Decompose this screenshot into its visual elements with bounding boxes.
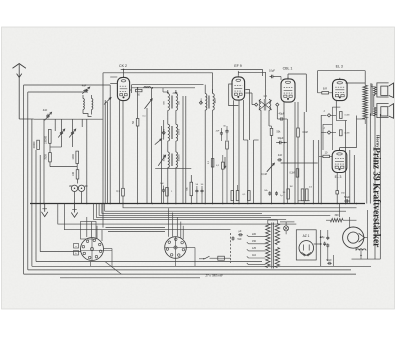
xfmr tap 110 — [249, 257, 266, 259]
wire EF9 plate corner — [245, 90, 249, 141]
wire subbus 5 — [94, 204, 287, 220]
potentiometer 0,1M — [267, 163, 275, 172]
trim diamond IFT2 — [199, 101, 202, 104]
svg-text:4nF: 4nF — [278, 154, 283, 157]
wire v313 — [312, 140, 314, 204]
wire IFT bracket — [163, 120, 165, 140]
svg-text:CBL 1: CBL 1 — [283, 67, 293, 71]
junction bus dot 6 — [137, 203, 139, 205]
rectifier box — [296, 230, 316, 260]
speaker 2 coil — [374, 107, 377, 116]
wire anode bus b — [132, 87, 196, 89]
wire 271 down2 — [271, 143, 273, 158]
wire CBL1 topline — [287, 74, 289, 79]
speaker 2 cone — [389, 104, 394, 119]
wire CK2 grid — [109, 85, 111, 100]
wire subbus 2 — [102, 204, 262, 214]
xfmr tap 220 — [249, 236, 266, 238]
resistor bus b — [166, 188, 169, 197]
wire tuner v50b — [49, 162, 51, 167]
wire subbus 0 — [123, 204, 357, 208]
wire subbus 4 — [96, 204, 271, 218]
power transformer primary — [266, 224, 270, 268]
junction bus dot 0 — [43, 203, 45, 205]
wire 271 down3 — [271, 158, 273, 204]
wire frame v5 — [39, 155, 41, 252]
wire frame v2 bottom — [28, 269, 351, 271]
resistor bus i — [306, 189, 309, 201]
svg-text:50µF: 50µF — [344, 196, 350, 199]
wire tuner v86 — [86, 119, 88, 203]
wire v380 down — [379, 114, 381, 259]
speaker 1 cone — [389, 83, 394, 98]
diamond interstage L — [255, 103, 258, 106]
electrolytic 30uF a — [71, 185, 77, 191]
wire v182 — [182, 96, 184, 204]
wire tuner v77 — [76, 164, 78, 170]
wire v298 — [297, 102, 299, 128]
wire frame v1 top — [24, 84, 111, 86]
wire IFT1a tops — [163, 91, 168, 93]
xfmr tap 150 — [249, 243, 266, 245]
wire field bottom — [360, 248, 362, 259]
antenna coil La — [83, 99, 84, 110]
junction bus dot 12 — [212, 203, 214, 205]
wire xfmr bottom — [364, 119, 366, 124]
resistor 50k interstage — [270, 128, 273, 135]
antenna coil Lb — [92, 99, 93, 110]
power transformer secondary b — [275, 248, 279, 268]
wire EF9 cath b — [238, 101, 240, 204]
wire xfmr top leads — [267, 220, 269, 224]
wire EF9 cath a — [233, 100, 235, 203]
svg-text:5nF: 5nF — [160, 183, 164, 185]
svg-text:125: 125 — [252, 247, 257, 250]
wire lamp leads — [285, 222, 287, 226]
wire CK2 pin mid — [122, 101, 124, 189]
wire top grid line — [121, 68, 263, 70]
wire subbus 1 — [105, 204, 346, 212]
resistor bus h — [301, 189, 304, 201]
electrolytic 30uF b — [78, 185, 84, 191]
wire EF9 plate link — [245, 92, 252, 94]
wire CBL1 k — [283, 102, 285, 204]
resistor bus c — [236, 191, 239, 201]
wire EF9 grid loop — [229, 84, 239, 106]
wire IFT1 link c — [167, 141, 169, 152]
junction bus dot 16 — [247, 203, 249, 205]
wire tuner v62 — [61, 119, 63, 131]
resistor 0,1M cbl — [297, 128, 300, 137]
junction bus dot 9 — [175, 203, 177, 205]
junction top cap CK2 — [123, 69, 125, 71]
wire osc line y168 — [155, 167, 191, 169]
ground symbol — [74, 204, 76, 213]
wire v339 down — [338, 204, 340, 218]
wire v318 — [318, 140, 320, 204]
switch arrow 225 — [224, 157, 226, 168]
svg-text:4nF: 4nF — [216, 131, 220, 133]
resistor 7500 — [49, 153, 52, 162]
resistor 0,1M cbl2 — [296, 169, 299, 177]
wire tuner v72b — [72, 136, 74, 148]
trimmer capacitor C-ant — [47, 114, 49, 116]
resistor BR — [322, 92, 329, 94]
svg-text:7500: 7500 — [45, 154, 48, 160]
svg-text:5nF: 5nF — [238, 238, 243, 241]
tube socket S2 — [165, 237, 187, 259]
output transformer core — [370, 84, 372, 116]
wire v258 down — [260, 110, 262, 203]
wire frame v4 — [35, 150, 37, 262]
resistor 30000 tuner — [37, 140, 40, 149]
svg-text:100000: 100000 — [45, 135, 48, 144]
wire v304 — [303, 112, 305, 204]
capacitor 50nF — [327, 262, 329, 264]
wire antenna to tuner — [19, 118, 33, 120]
wire v356 — [356, 116, 358, 148]
svg-text:0,1M: 0,1M — [303, 132, 308, 134]
svg-text:10000: 10000 — [179, 128, 181, 135]
junction bus1 — [137, 87, 139, 89]
wire res bracket — [298, 200, 310, 202]
tube socket S1 — [81, 238, 104, 261]
wire EL3t cath — [335, 100, 337, 110]
wire v345 — [345, 121, 347, 204]
wire mini rail EF9 — [222, 130, 227, 132]
capacitor mains filter — [238, 234, 240, 236]
wire frame v3 — [31, 119, 33, 266]
wire frame v4 bottom — [36, 261, 262, 263]
wire BR left — [318, 92, 322, 94]
wire frame v2 top — [28, 91, 88, 93]
wire EF9 corner down — [265, 72, 267, 99]
wire coupling line — [319, 155, 323, 157]
junction bus dot 11 — [204, 203, 206, 205]
field coil speaker — [343, 227, 364, 248]
resistor 222 — [222, 162, 225, 169]
wire splitter line — [281, 162, 318, 164]
junction bus dot 22 — [313, 203, 315, 205]
junction bus dot 25 — [345, 203, 347, 205]
speaker 1 frame — [377, 83, 389, 97]
svg-text:150: 150 — [252, 240, 257, 243]
wire EF9 screen — [243, 100, 245, 140]
wire AVC top line — [103, 72, 213, 74]
capacitor 10uF — [270, 76, 272, 78]
junction bus dot 7 — [152, 203, 154, 205]
fuse — [218, 256, 225, 260]
svg-text:27 v. 580 mW: 27 v. 580 mW — [204, 274, 222, 278]
wire v327 low — [327, 230, 329, 237]
xfmr tap low — [249, 264, 266, 266]
tuning capacitor arrow 1 — [104, 98, 111, 105]
wire subbus 3 — [99, 204, 330, 216]
wire antenna coil bottoms — [83, 114, 92, 117]
switch mains — [199, 258, 204, 260]
capacitor coupling J1 — [327, 114, 330, 117]
wire driver left — [323, 123, 332, 125]
wire S2 diag — [106, 262, 122, 274]
resistor 10 coupling — [323, 155, 330, 157]
svg-text:100: 100 — [72, 171, 75, 176]
wire tuner v72 — [72, 119, 74, 131]
svg-text:0,1M: 0,1M — [261, 173, 267, 176]
resistor 0,1 ift — [136, 119, 139, 127]
wire EF9 topcap line — [237, 71, 239, 75]
svg-text:1000: 1000 — [72, 154, 75, 160]
wire AZ1 HT riser — [320, 230, 322, 266]
wire v107 — [106, 102, 108, 204]
svg-text:300: 300 — [335, 214, 340, 217]
wire driver top — [332, 106, 340, 108]
wire grid EF9 link — [183, 95, 205, 97]
capacitor 50a — [196, 189, 198, 191]
svg-text:0,1M: 0,1M — [345, 133, 350, 135]
junction bus dot 5 — [122, 203, 124, 205]
wire inter-socket a — [106, 227, 166, 229]
diamond interstage R — [276, 103, 279, 106]
speaker 1 coil — [374, 87, 377, 96]
resistor 0,1 5W — [122, 188, 125, 196]
wire frame v5 bottom — [40, 251, 81, 253]
wire v367 low — [367, 210, 369, 259]
tube EL3 top — [333, 79, 348, 100]
svg-text:CK 2: CK 2 — [119, 64, 127, 68]
svg-text:30000: 30000 — [33, 141, 36, 148]
wire CK2 topcap — [123, 69, 125, 75]
capacitor bus e — [269, 191, 271, 193]
svg-text:AZ 1: AZ 1 — [303, 234, 310, 238]
wire v321 — [320, 115, 322, 203]
wire S2 stub — [175, 258, 177, 266]
wire v253 — [253, 140, 255, 204]
wire tuner v55 — [54, 119, 56, 131]
svg-text:50nF: 50nF — [326, 260, 332, 262]
tube CBL1 — [281, 79, 295, 102]
junction bus dot 8 — [167, 203, 169, 205]
capacitor az small — [324, 242, 326, 244]
svg-text:30µF: 30µF — [278, 136, 284, 140]
svg-text:Horny: Horny — [375, 135, 380, 148]
svg-text:10µF: 10µF — [269, 69, 275, 73]
wire subbus 6 — [58, 204, 296, 225]
svg-text:110: 110 — [252, 254, 256, 257]
svg-text:EL 3: EL 3 — [336, 65, 343, 69]
svg-text:B.R: B.R — [323, 88, 327, 91]
wire speakers link — [373, 95, 375, 107]
capacitor 4nF vol — [277, 159, 279, 161]
diamond IFT bracket — [162, 131, 165, 134]
IFT2 coil pair — [205, 94, 207, 111]
wire frame v2 — [27, 92, 29, 270]
wire tuner v82 — [81, 119, 83, 127]
wire v105 — [104, 100, 106, 204]
wire CK2 pin left — [119, 100, 121, 203]
svg-text:100000: 100000 — [179, 154, 181, 162]
speaker 2 frame — [377, 104, 389, 118]
junction bus dot 23 — [320, 203, 322, 205]
capacitor 50uF — [344, 200, 346, 202]
wire 271 down — [271, 126, 273, 128]
wire v155 — [146, 108, 148, 204]
resistor bus j — [231, 191, 234, 201]
wire v366 down — [366, 118, 368, 204]
capacitor 219 — [220, 131, 222, 133]
capacitor bus a — [163, 188, 165, 190]
resistor 50k agc — [190, 182, 193, 196]
wire IFT2 bottoms — [204, 110, 206, 204]
junction bus dot 20 — [294, 203, 296, 205]
resistor bus g — [287, 189, 290, 199]
tube EL3 bottom — [332, 151, 347, 173]
IFT1 coil pair C — [168, 152, 170, 168]
wire v375 down — [374, 112, 376, 259]
junction bus dot 15 — [238, 203, 240, 205]
socket S1 tags — [74, 244, 79, 249]
tube EF9 — [232, 77, 245, 100]
diode arrow 2 — [155, 139, 162, 145]
wire v110 — [109, 100, 111, 204]
wire bottom extra — [60, 277, 200, 279]
speaker 1 box — [381, 86, 388, 95]
wire v137 — [137, 88, 139, 119]
wire subbus 7 — [64, 204, 230, 230]
wire cap to CBL — [275, 76, 281, 78]
wire EL3t k2 — [335, 111, 337, 121]
coil RF choke — [144, 87, 151, 88]
resistor 1000 — [76, 151, 79, 163]
wire tuner v50a — [49, 143, 51, 152]
wire fuse leads — [210, 257, 218, 259]
svg-text:1M: 1M — [289, 186, 292, 188]
tuning capacitor arrow 2 — [145, 99, 153, 109]
junction bus dot 24 — [336, 203, 338, 205]
resistor 100000 — [49, 129, 52, 143]
wire socket2 feeds — [168, 208, 170, 237]
svg-text:1000: 1000 — [215, 98, 217, 104]
wire tuner top rail — [34, 118, 103, 120]
wire v349 — [349, 150, 351, 204]
resistor grid1 — [340, 112, 343, 119]
wire top right rail — [318, 70, 366, 72]
wire AZ1 out — [314, 243, 321, 245]
resistor EL3b k — [336, 191, 339, 194]
wire v354 — [353, 155, 355, 204]
resistor 50 screen — [136, 89, 143, 91]
wire socket1 feeds — [86, 217, 88, 237]
wire AVC vertical — [102, 73, 104, 228]
capacitor 5nF mains — [232, 236, 234, 238]
wire v161 — [161, 126, 163, 204]
capacitor 8uF b — [327, 243, 329, 245]
junction bus dot 2 — [86, 203, 88, 205]
power transformer core — [271, 223, 273, 269]
resistor on 212 line — [211, 159, 214, 167]
diode arrow AVC — [158, 155, 165, 166]
ground symbol 2 — [44, 204, 46, 212]
junction bus dot 3 — [102, 203, 104, 205]
junction bus dot 10 — [191, 203, 193, 205]
filter choke 3ohm — [330, 218, 343, 222]
wire tuner v61b — [61, 136, 63, 148]
power transformer secondary a — [275, 224, 279, 245]
dial lamp — [284, 226, 289, 231]
IFT1 coil pair B — [168, 124, 170, 141]
interstage transformer — [259, 100, 261, 111]
field coil winding — [356, 249, 366, 251]
wire EL3t plate — [346, 82, 366, 84]
wire v370 down — [369, 113, 371, 203]
wire frame v3 bottom — [32, 265, 371, 267]
junction bus dot 21 — [303, 203, 305, 205]
capacitor 40uF — [279, 118, 281, 120]
junction bus dot 26 — [356, 203, 358, 205]
wire CK2 plate riser — [130, 89, 132, 91]
speaker 2 box — [381, 107, 388, 116]
svg-text:0,1M: 0,1M — [289, 173, 294, 175]
trimmer capacitor T3 — [72, 131, 74, 133]
wire field top — [349, 217, 351, 228]
wire frame v1 — [23, 85, 25, 274]
wire v277 link — [276, 106, 278, 119]
wire v287 — [286, 119, 288, 204]
capacitor bus f — [276, 191, 278, 193]
wire IFT1 link a — [167, 110, 169, 124]
wire EL3b plate — [340, 147, 357, 149]
resistor EF9 k — [226, 141, 229, 149]
svg-text:4nF: 4nF — [43, 108, 48, 112]
socket shield box — [81, 222, 97, 240]
capacitor EF9 k — [226, 129, 228, 131]
wire IFT1 bottoms — [167, 168, 169, 204]
wire interstage sec down — [268, 110, 270, 126]
tube AZ1 — [299, 241, 314, 256]
wire v152 — [151, 88, 153, 204]
wire tuner v74 to bus — [74, 192, 76, 204]
svg-text:EL 3: EL 3 — [335, 175, 342, 179]
svg-text:220: 220 — [252, 233, 257, 236]
speaker magnet gap — [359, 233, 365, 242]
svg-text:EF 9: EF 9 — [234, 64, 242, 68]
junction bus dot 4 — [109, 203, 111, 205]
svg-text:0,1M: 0,1M — [345, 115, 350, 117]
svg-text:Prinz 39 Kraftverstärker: Prinz 39 Kraftverstärker — [371, 147, 382, 247]
output transformer — [363, 85, 367, 119]
wire BR right — [329, 92, 333, 94]
svg-text:4nF: 4nF — [82, 84, 87, 88]
junction bus dot 17 — [260, 203, 262, 205]
wire IFT1 link b — [175, 110, 177, 124]
IFT1 coil pair A — [168, 94, 170, 111]
wire v295 — [294, 102, 296, 204]
mains dashed link — [230, 233, 232, 263]
capacitor 50b — [201, 189, 203, 191]
chassis bus — [30, 203, 365, 205]
capacitor 8uF a — [327, 236, 329, 238]
wire anode bus a — [132, 84, 204, 86]
wire choke leads — [343, 219, 357, 221]
junction bus dot 1 — [74, 203, 76, 205]
antenna — [18, 65, 20, 120]
tube CK2 — [117, 77, 129, 100]
resistor 100 — [76, 170, 79, 179]
wire frame v1 bottom — [24, 273, 356, 275]
wire tuner mid rail — [50, 166, 77, 168]
junction bus dot 13 — [222, 203, 224, 205]
wire inter-socket b — [108, 231, 165, 233]
wire v185 — [185, 96, 187, 204]
